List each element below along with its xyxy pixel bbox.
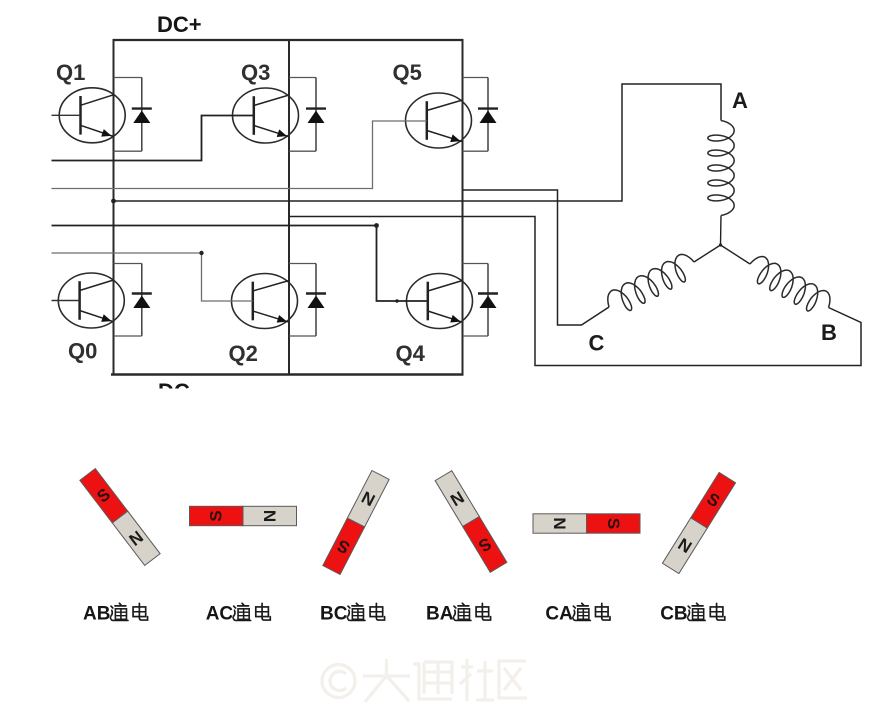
- watermark ©大疆社区: [322, 659, 527, 702]
- DC- bottom rail: [111, 373, 464, 375]
- svg-text:DC+: DC+: [157, 12, 202, 37]
- svg-text:Q5: Q5: [393, 60, 422, 85]
- transistor Q5: [406, 93, 472, 148]
- diode D3 (Q3 flyback): [289, 78, 326, 152]
- svg-text:Q2: Q2: [229, 341, 258, 366]
- wire winding A lower lead to star point: [720, 216, 723, 246]
- label CB通电 (CB energized): [660, 603, 725, 624]
- diode D5 (Q5 flyback): [463, 78, 499, 152]
- wire Q4 base drive: [52, 226, 428, 302]
- diode D4 (Q4 flyback): [463, 264, 499, 337]
- label AC通电 (AC energized): [206, 603, 271, 624]
- svg-text:N: N: [550, 517, 569, 529]
- wire Q2 base drive: [52, 253, 253, 301]
- transistor Q4: [407, 274, 473, 329]
- svg-text:S: S: [604, 518, 623, 529]
- magnet rotor position AB: [80, 469, 160, 566]
- diode D0 (Q0 flyback): [114, 264, 152, 337]
- svg-text:BA: BA: [426, 604, 454, 625]
- wire Q0 base input: [52, 300, 80, 302]
- bus wire middle (Q3/Q2 leg): [288, 40, 290, 375]
- wire Q5 base drive: [52, 121, 427, 189]
- coil winding A: [708, 121, 734, 216]
- transistor Q1: [59, 88, 125, 143]
- label CA通电 (CA energized): [545, 603, 610, 624]
- diode D2 (Q2 flyback): [289, 264, 326, 337]
- magnet rotor position BA: [435, 471, 507, 573]
- svg-text:Q3: Q3: [241, 60, 270, 85]
- svg-text:Q4: Q4: [396, 341, 426, 366]
- svg-text:AC: AC: [206, 604, 234, 625]
- svg-text:C: C: [589, 331, 605, 356]
- magnet rotor position CB: [662, 472, 735, 573]
- DC- label (clipped): [158, 379, 197, 404]
- label BC通电 (BC energized): [320, 603, 385, 624]
- svg-text:BC: BC: [320, 604, 348, 625]
- transistor Q0: [58, 273, 124, 328]
- magnet rotor position BC: [323, 471, 389, 575]
- wire phase C (leg3 midpoint to winding C): [463, 190, 610, 325]
- transistor Q2: [232, 274, 298, 329]
- svg-text:CB: CB: [660, 604, 687, 625]
- transistor Q3: [233, 88, 299, 143]
- junction dot Q4 drive corner: [374, 223, 379, 228]
- svg-text:AB: AB: [83, 604, 110, 625]
- svg-text:S: S: [207, 510, 226, 521]
- svg-text:A: A: [732, 88, 748, 113]
- wire star point to winding B: [721, 245, 751, 264]
- svg-text:N: N: [261, 510, 280, 522]
- junction dot on Q4 base wire: [395, 299, 398, 302]
- magnet rotor position AC: [190, 506, 297, 525]
- DC+ top rail: [113, 39, 464, 41]
- coil winding B: [750, 257, 830, 312]
- wire Q1 base input: [52, 114, 81, 116]
- svg-text:Q0: Q0: [68, 339, 97, 364]
- magnet rotor position CA: [533, 514, 640, 533]
- coil winding C: [608, 254, 694, 310]
- bus wire left (Q1/Q0 leg): [113, 40, 115, 375]
- junction dot Q2 drive corner: [199, 251, 203, 255]
- junction dot phase A tap: [111, 199, 116, 204]
- svg-text:B: B: [821, 320, 837, 345]
- svg-text:CA: CA: [545, 604, 573, 625]
- wire phase B (leg2 midpoint to winding B): [289, 217, 861, 366]
- label AB通电 (AB energized): [83, 603, 148, 624]
- wire star point to winding C: [694, 245, 721, 262]
- wire phase A (leg1 midpoint to winding A): [114, 84, 722, 201]
- label BA通电 (BA energized): [426, 603, 491, 624]
- bus wire right (Q5/Q4 leg): [462, 40, 464, 375]
- node star point: [719, 243, 722, 246]
- wire Q3 base drive: [52, 116, 254, 161]
- diode D1 (Q1 flyback): [114, 78, 152, 152]
- svg-text:Q1: Q1: [56, 60, 85, 85]
